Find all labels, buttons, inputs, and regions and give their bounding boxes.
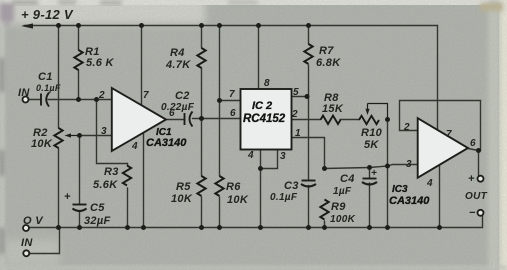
wire: R3 bottom to ground	[127, 188, 129, 228]
wire: IC1 output to C2	[166, 119, 184, 121]
node: IN-R3 branch	[94, 97, 99, 102]
wire: R8 to R10	[340, 119, 359, 121]
svg-text:C4: C4	[340, 173, 355, 185]
wire: IC2 pin2 to R8	[292, 119, 321, 121]
node: R2 wiper	[77, 133, 82, 138]
svg-text:4: 4	[426, 178, 433, 189]
svg-text:IC 2: IC 2	[252, 100, 272, 112]
wire: R1 branch from rail	[78, 26, 80, 51]
svg-text:5K: 5K	[364, 139, 379, 151]
resistor R6	[215, 176, 223, 196]
svg-text:R7: R7	[319, 45, 334, 57]
svg-text:7: 7	[143, 90, 149, 101]
wire: R10 right end dot down to ground	[387, 120, 389, 228]
svg-text:R4: R4	[170, 47, 185, 59]
wire: C4 top stub	[369, 168, 371, 179]
svg-text:RC4152: RC4152	[243, 113, 286, 125]
svg-text:C1: C1	[38, 71, 53, 83]
svg-text:0.1µF: 0.1µF	[270, 192, 298, 203]
wire: R2 wiper to IC1 pin3	[80, 135, 112, 137]
svg-text:10K: 10K	[227, 194, 249, 206]
node: ground-R6	[217, 225, 222, 230]
wire: IC2 pin5 to R7 node	[292, 96, 309, 98]
wire: IC2 pin1 right and down	[292, 138, 325, 169]
wire: IC1 pin7 supply	[141, 26, 143, 106]
resistor R8	[321, 116, 341, 124]
svg-text:2: 2	[291, 109, 298, 120]
resistor R10	[359, 116, 379, 124]
wire: R5 top from C2 node	[201, 119, 203, 177]
resistor R4	[197, 48, 205, 68]
wire: output down to + terminal	[478, 151, 480, 176]
svg-text:0.1µF: 0.1µF	[36, 83, 61, 93]
node: IN-R1	[76, 97, 81, 102]
wire: R4 from rail	[201, 26, 203, 49]
node: ground-C4	[367, 225, 372, 230]
node: ground-R9	[322, 225, 327, 230]
wire: node line pin1 to IC3 pin3	[325, 165, 418, 169]
wire: IC3 output	[468, 149, 479, 151]
node: C2-R4-R5	[199, 116, 204, 121]
svg-text:+: +	[371, 168, 377, 179]
svg-text:C2: C2	[175, 90, 190, 102]
svg-text:R3: R3	[104, 166, 119, 178]
svg-text:10K: 10K	[31, 138, 53, 150]
svg-text:R9: R9	[331, 201, 346, 213]
wire: IC2 pin7 branch from rail	[219, 26, 221, 101]
node: R10 drop on node line	[385, 164, 390, 169]
svg-text:1µF: 1µF	[333, 186, 352, 197]
wire: C3 bottom to ground rail	[308, 186, 310, 228]
wire: IN top lead through C1 to IC1 pin2	[29, 99, 41, 101]
svg-text:5.6K: 5.6K	[93, 179, 118, 191]
node: ground-C5	[77, 225, 82, 230]
svg-text:1: 1	[295, 128, 301, 139]
node: rail-R1	[76, 23, 81, 28]
wire: IC2 pin3 jog to pin4 line	[261, 150, 278, 169]
svg-text:OUT: OUT	[465, 191, 488, 202]
svg-text:6: 6	[470, 138, 476, 149]
terminal OUT plus	[478, 176, 484, 182]
terminal IN top	[23, 97, 29, 103]
wiper arrow of R10	[367, 104, 369, 111]
+V rail arrowhead	[21, 23, 33, 28]
node: ground-R2	[56, 225, 61, 230]
node: pin3-pin4 of IC2	[258, 166, 263, 171]
node: pin5-R7	[305, 94, 310, 99]
wire: IC2 pin8 from rail	[258, 26, 260, 90]
svg-text:+ 9-12 V: + 9-12 V	[21, 7, 74, 22]
node: rail-IC1 pin7	[139, 23, 144, 28]
svg-text:R5: R5	[176, 181, 191, 193]
node: rail-R7	[306, 23, 311, 28]
wire: R5 bottom to ground	[201, 197, 203, 228]
svg-text:4: 4	[131, 141, 138, 152]
wire: bottom IN lead	[30, 228, 60, 254]
svg-text:CA3140: CA3140	[146, 137, 187, 149]
wiper bracket of R10	[368, 104, 388, 120]
wire: +V top rail	[24, 25, 438, 27]
svg-text:2: 2	[98, 90, 105, 101]
svg-text:+: +	[468, 173, 475, 185]
capacitor C4	[362, 179, 377, 185]
svg-text:6: 6	[230, 108, 236, 119]
svg-text:4: 4	[247, 150, 254, 161]
resistor R7	[304, 44, 312, 64]
node: R10 right end	[385, 117, 390, 122]
svg-text:−: −	[469, 207, 476, 219]
terminal IN bottom	[23, 250, 29, 256]
terminal OUT minus	[478, 210, 484, 216]
wire: top rail right corner down to IC3 pin7	[437, 26, 439, 131]
svg-text:32µF: 32µF	[84, 215, 111, 227]
svg-text:2: 2	[403, 122, 410, 133]
node: ground-C3	[306, 225, 311, 230]
node: rail-R2	[56, 23, 61, 28]
wire: C5 bottom to ground	[79, 212, 81, 228]
wire: R7 from rail	[308, 26, 310, 45]
wire: IC2 pin7 horizontal	[220, 100, 241, 102]
wire: pin2 node down and right to R3	[97, 100, 128, 164]
wire: ground rail	[30, 216, 483, 228]
op-amp IC3 triangle	[418, 118, 468, 178]
wire: C2 to IC2 pin6	[193, 118, 241, 120]
wire: R4 bottom to C2 node	[201, 68, 203, 119]
wiper arrow of R2	[69, 135, 80, 137]
op-amp IC1 triangle	[112, 88, 166, 151]
resistor R2	[54, 128, 62, 148]
svg-text:4.7K: 4.7K	[165, 59, 191, 71]
node: ground-R3	[125, 225, 130, 230]
svg-text:C5: C5	[90, 202, 105, 214]
svg-text:6.8K: 6.8K	[316, 57, 341, 69]
svg-text:100K: 100K	[330, 214, 356, 225]
node: pin7-R6	[217, 98, 222, 103]
wire: IC1 pin4 to ground	[143, 133, 145, 227]
svg-text:8: 8	[264, 78, 270, 89]
wire: IC3 feedback bracket output to pin2	[400, 101, 481, 151]
wire: R3 top stub	[127, 164, 129, 166]
capacitor C2	[185, 112, 193, 127]
svg-text:10K: 10K	[171, 193, 193, 205]
svg-text:3: 3	[406, 159, 412, 170]
svg-text:5: 5	[293, 87, 299, 98]
svg-text:0.22µF: 0.22µF	[161, 102, 195, 113]
node: ground-R10 drop	[385, 225, 390, 230]
capacitor C5	[73, 205, 87, 212]
wire: C1 right to pin2	[48, 99, 112, 101]
svg-text:7: 7	[229, 89, 235, 100]
svg-text:3: 3	[101, 126, 107, 137]
resistor R5	[197, 176, 205, 196]
wire: R7 bottom through pin5 node down to C3	[308, 65, 310, 180]
wire: C4 bottom to ground	[369, 183, 371, 228]
resistor R9	[320, 200, 328, 220]
wire: R1 bottom to IN node	[78, 70, 80, 100]
node: ground-IC3 pin4	[437, 225, 442, 230]
svg-text:5.6 K: 5.6 K	[86, 57, 115, 69]
node: C4 top	[367, 165, 372, 170]
svg-text:R10: R10	[361, 127, 383, 139]
wire: IC3 pin4 to ground	[439, 165, 441, 228]
svg-text:3: 3	[280, 151, 286, 162]
node: ground-IC2 pin4	[258, 225, 263, 230]
wire: R2 branch from rail	[58, 26, 60, 129]
node: rail-IC2 pin8	[256, 23, 261, 28]
svg-text:IN: IN	[18, 87, 30, 99]
node: IC3 output	[476, 148, 481, 153]
resistor R3	[123, 166, 131, 186]
resistor R1	[74, 50, 82, 70]
wire: R9 bottom to ground	[324, 221, 326, 228]
capacitor C3	[301, 181, 316, 187]
IC2 body	[241, 89, 292, 150]
node: pin1-R9	[322, 166, 327, 171]
wire: R6 bottom to ground	[219, 197, 221, 228]
svg-text:R6: R6	[226, 181, 241, 193]
svg-text:IC3: IC3	[392, 184, 408, 195]
node: rail-R4	[199, 23, 204, 28]
svg-text:+: +	[64, 191, 71, 203]
node: ground-R5	[199, 225, 204, 230]
node: ground-IC1 pin4	[141, 225, 146, 230]
svg-text:CA3140: CA3140	[389, 195, 430, 207]
capacitor C1	[41, 93, 49, 107]
svg-text:C3: C3	[284, 180, 299, 192]
node: rail-IC2 pin7	[217, 23, 222, 28]
wire: IC2 pin4 to ground	[260, 150, 262, 228]
terminal 0V	[23, 225, 29, 231]
wire: R2 bottom to ground	[58, 148, 60, 228]
svg-text:15K: 15K	[322, 103, 344, 115]
wire: R6 top from pin7 node	[219, 101, 221, 177]
svg-text:IN: IN	[21, 237, 33, 249]
svg-text:7: 7	[446, 129, 452, 140]
wire: wiper node down to C5	[79, 136, 81, 205]
